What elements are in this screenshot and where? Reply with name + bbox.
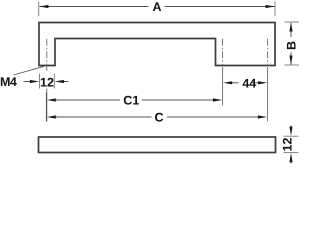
dimension 44 right arrow [252,82,259,84]
dimension 12 bar bottom arrowhead [289,153,292,162]
dimension 12 bar top arrowhead [289,127,292,136]
svg-text:44: 44 [242,77,256,91]
dimension 12 bar top tick [284,135,299,137]
M4 leader line [14,66,45,75]
dimension 12 left extension line [39,74,41,89]
dimension C left arrowhead [47,115,56,118]
dimension 12 right extension line [53,74,55,89]
right block right centerline lower extension [267,67,269,121]
bottom bar outline [39,137,276,153]
dimension 12 right arrow [63,81,69,83]
dimension B line lower segment [290,53,292,65]
left leg centerline [46,39,48,72]
dimension 44 right arrowhead [258,81,267,84]
dimension B top tick [285,21,300,23]
dimension 12 bar top arrow tail [290,126,292,130]
dimension C line left segment [55,116,152,118]
dimension C1 left arrowhead [47,98,56,101]
svg-text:12: 12 [40,75,54,89]
dimension B up arrow [289,22,292,31]
dimension C line right segment [167,116,259,118]
svg-text:A: A [152,0,161,14]
right block left centerline [222,39,224,66]
dimension A left tick [38,2,40,17]
dimension B down arrow [289,56,292,65]
dimension C1 line right segment [142,99,214,101]
handle outline [39,23,275,66]
dimension 12 bar bottom tick [284,152,299,154]
dimension B line upper segment [290,23,292,37]
dimension 12 left arrowhead [30,80,39,83]
dimension 44 left arrowhead [223,81,232,84]
left leg centerline lower extension [46,89,48,122]
dimension 12 right arrowhead [55,80,64,83]
svg-text:C1: C1 [123,93,139,107]
dimension C right arrowhead [258,115,267,118]
svg-text:M4: M4 [0,75,17,89]
dimension C1 left start tick [45,92,47,121]
dimension A left arrow [39,5,48,8]
svg-text:12: 12 [281,138,295,152]
dimension C1 line left segment [55,99,120,101]
right block right centerline [267,39,269,66]
dimension B bottom tick [285,64,300,66]
dimension 44 left arrow [232,82,239,84]
dimension A right tick [274,2,276,17]
svg-text:B: B [285,41,299,50]
dimension 12 left arrow [24,81,32,83]
dimension A right arrow [266,5,275,8]
right block left centerline lower extension [222,67,224,106]
dimension A line right segment [165,6,275,8]
svg-text:C: C [154,110,163,124]
dimension A line left segment [40,6,149,8]
dimension C1 right arrowhead [213,98,222,101]
dimension 12 bar bottom arrow tail [290,160,292,164]
